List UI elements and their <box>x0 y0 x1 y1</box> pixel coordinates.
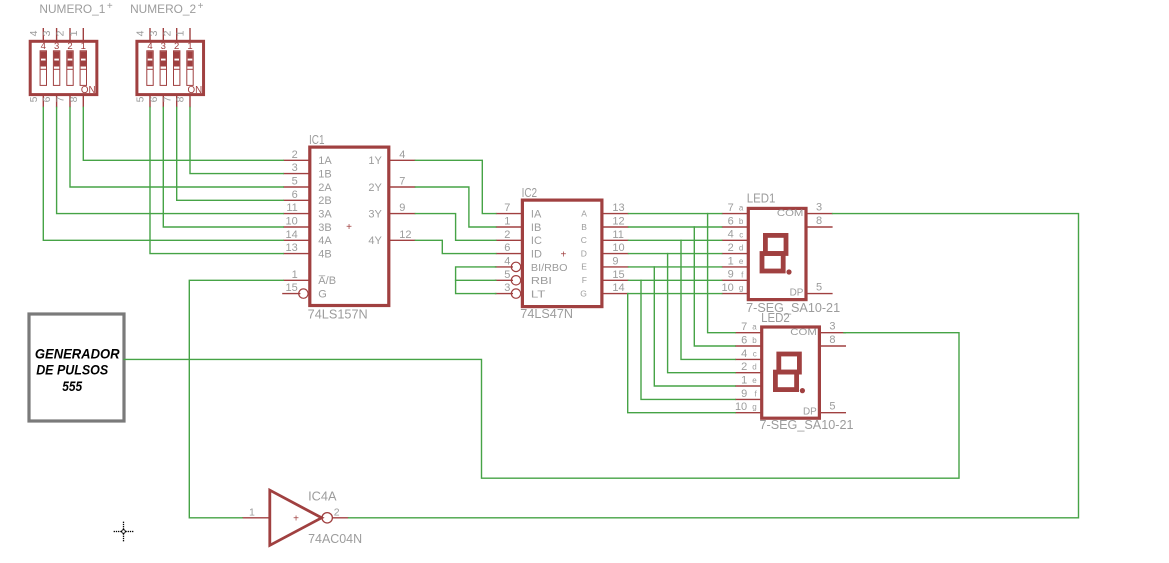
LED2 COM pin name <box>790 327 817 338</box>
svg-text:2: 2 <box>334 506 340 518</box>
LED1 pin 7 (segment a) stub <box>722 213 749 215</box>
svg-text:RBI: RBI <box>531 275 552 287</box>
svg-text:3A: 3A <box>318 209 332 221</box>
IC1 pin 3 (1B) stub <box>283 173 310 175</box>
IC1 pin name 4Y <box>368 235 382 247</box>
IC1 pin number 13 <box>286 242 298 254</box>
LED1 segment letter d <box>739 244 743 253</box>
LED1 pin number 10 <box>722 282 734 294</box>
inverter IC4A triangle <box>270 490 322 545</box>
wire IC1 4Y to IC2 ID <box>415 240 495 253</box>
IC2 pin name C <box>581 235 587 245</box>
svg-text:G: G <box>318 289 327 301</box>
NUMERO_2 pin number 5 <box>135 96 147 102</box>
LED display LED2 body <box>762 327 820 418</box>
wire tap G down to LED2 segment g <box>628 294 735 413</box>
svg-text:e: e <box>739 257 744 266</box>
wire NUMERO_1 pin8 to IC1 1A <box>83 107 283 160</box>
IC1 pin number 5 <box>292 176 298 188</box>
IC1 pin name G <box>318 289 327 301</box>
wire tap E down to LED2 segment e <box>654 267 735 386</box>
IC1 pin 15 (G) stub with inversion bubble <box>282 289 308 298</box>
wire IC2 BI/RBO-RBI-LT tie loop <box>456 267 496 294</box>
svg-text:DP: DP <box>790 287 804 298</box>
NUMERO_1 pin number 3 <box>41 30 53 36</box>
svg-text:2: 2 <box>55 30 67 36</box>
svg-text:1: 1 <box>68 30 80 36</box>
NUMERO_1 switch position digit 3 <box>54 41 59 52</box>
IC1 pin name 3B <box>318 222 331 234</box>
LED2 segment letter b <box>752 336 757 345</box>
svg-text:8: 8 <box>68 96 80 102</box>
svg-text:LED2: LED2 <box>761 311 790 325</box>
svg-text:10: 10 <box>612 242 624 254</box>
svg-text:3: 3 <box>829 321 835 333</box>
svg-text:5: 5 <box>829 401 835 413</box>
IC4A value label 74AC04N <box>308 532 362 546</box>
IC1 pin 12 (4Y) stub <box>389 239 416 241</box>
svg-text:7: 7 <box>55 96 67 102</box>
IC1 pin name 2B <box>318 195 331 207</box>
NUMERO_1 pin 6 bottom stub <box>56 95 58 108</box>
wire IC2 D to LED1 segment d <box>629 253 722 255</box>
IC1 designator label <box>309 133 325 147</box>
wire NUMERO_1 pin7 to IC1 2A <box>70 107 283 187</box>
IC2 pin 2 (IC) stub <box>496 239 523 241</box>
LED1 segment letter e <box>739 257 744 266</box>
IC1 pin number 4 <box>399 149 405 161</box>
LED2 pin 10 (segment g) stub <box>735 412 762 414</box>
svg-text:1Y: 1Y <box>368 155 382 167</box>
IC2 pin number 13 <box>612 202 624 214</box>
LED1 segment letter b <box>739 217 744 226</box>
IC1 pin 9 (3Y) stub <box>389 213 416 215</box>
NUMERO_1 pin 8 bottom stub <box>82 95 84 108</box>
svg-text:5: 5 <box>504 269 510 281</box>
svg-text:C: C <box>581 235 587 245</box>
IC2 pin 11 (C) stub <box>602 239 629 241</box>
svg-text:1: 1 <box>728 255 734 267</box>
NUMERO_1 pin number 1 <box>68 30 80 36</box>
IC2 pin 9 (E) stub <box>602 266 629 268</box>
svg-text:9: 9 <box>728 269 734 281</box>
NUMERO_2 ON label <box>188 85 203 96</box>
svg-text:10: 10 <box>722 282 734 294</box>
label NUMERO_1 <box>39 1 113 16</box>
IC1 pin 1 (A̅/B) stub <box>283 279 310 281</box>
LED2 segment letter c <box>753 349 757 358</box>
svg-text:IA: IA <box>531 209 542 221</box>
IC2 pin number 4 <box>504 256 510 268</box>
svg-text:D: D <box>581 248 587 258</box>
NUMERO_2 pin 6 bottom stub <box>162 95 164 108</box>
IC2 pin 1 (IB) stub <box>496 226 523 228</box>
NUMERO_2 pin number 3 <box>148 30 160 36</box>
svg-text:7-SEG_SA10-21: 7-SEG_SA10-21 <box>760 418 854 432</box>
svg-text:3: 3 <box>292 162 298 174</box>
LED1 pin 1 (segment e) stub <box>722 266 749 268</box>
wire tap C down to LED2 segment c <box>681 240 735 359</box>
IC2 value label 74LS47N <box>520 307 573 321</box>
svg-text:IB: IB <box>531 222 541 234</box>
IC1 pin name 4A <box>318 235 332 247</box>
IC1 pin number 7 <box>399 176 405 188</box>
IC1 pin name 2Y <box>368 182 382 194</box>
svg-text:4: 4 <box>28 30 40 36</box>
IC1 pin 5 (2A) stub <box>283 186 310 188</box>
IC1 pin number 15 <box>286 282 298 294</box>
svg-text:5: 5 <box>28 96 40 102</box>
LED2 pin number 7 <box>741 321 747 333</box>
IC2 pin 14 (G) stub <box>602 293 629 295</box>
IC1 pin number 9 <box>399 202 405 214</box>
NUMERO_1 pin number 6 <box>41 96 53 102</box>
NUMERO_2 pin 7 bottom stub <box>176 95 178 108</box>
LED2 pin 3 (COM) stub <box>819 332 846 334</box>
svg-text:4: 4 <box>399 149 405 161</box>
NUMERO_1 ON label <box>81 85 96 96</box>
svg-text:b: b <box>739 217 744 226</box>
svg-text:LT: LT <box>531 289 546 301</box>
LED1 pin 8 stub <box>806 226 833 228</box>
LED1 pin number 1 <box>728 255 734 267</box>
IC2 pin name F <box>582 275 587 285</box>
IC2 pin name A <box>581 208 587 218</box>
wire IC1 A/B select to IC4A input <box>189 280 283 518</box>
LED1 segment letter f <box>741 270 744 279</box>
svg-text:10: 10 <box>286 216 298 228</box>
IC2 pin 12 (B) stub <box>602 226 629 228</box>
IC1 pin name 1A <box>318 155 332 167</box>
LED2 pin number 8 <box>829 334 835 346</box>
IC1 pin number 6 <box>292 189 298 201</box>
LED2 pin number 6 <box>741 334 747 346</box>
NUMERO_2 slider 3 <box>160 51 166 86</box>
svg-text:b: b <box>752 336 757 345</box>
IC2 pin number 5 <box>504 269 510 281</box>
svg-text:5: 5 <box>292 176 298 188</box>
IC2 pin 10 (D) stub <box>602 253 629 255</box>
NUMERO_2 switch position digit 2 <box>174 41 179 52</box>
IC2 designator label <box>522 186 538 200</box>
LED1 segment letter g <box>739 284 743 293</box>
sheet origin crosshair marker <box>114 522 134 542</box>
DIP switch NUMERO_1 body <box>30 41 97 94</box>
svg-text:c: c <box>739 230 743 239</box>
svg-text:DP: DP <box>803 407 817 418</box>
LED1 segment letter c <box>739 230 743 239</box>
IC1 pin name A̅/B <box>318 275 336 287</box>
svg-text:8: 8 <box>816 215 822 227</box>
svg-text:4Y: 4Y <box>368 235 382 247</box>
IC1 pin number 14 <box>286 229 298 241</box>
IC2 pin number 6 <box>504 242 510 254</box>
wire IC1 3Y to IC2 IC <box>415 214 495 241</box>
NUMERO_2 pin number 1 <box>175 30 187 36</box>
NUMERO_1 pin 5 bottom stub <box>42 95 44 108</box>
svg-text:15: 15 <box>612 269 624 281</box>
IC4A plus mark <box>293 514 299 525</box>
NUMERO_1 pin number 5 <box>28 96 40 102</box>
IC1 pin 7 (2Y) stub <box>389 186 416 188</box>
IC2 pin number 14 <box>612 282 624 294</box>
NUMERO_2 slider 1 <box>187 51 193 86</box>
wire tap B down to LED2 segment b <box>694 227 735 346</box>
NUMERO_1 slider 4 <box>40 51 46 86</box>
label NUMERO_2 <box>130 1 204 16</box>
LED1 DP pin name <box>790 287 804 298</box>
IC2 pin number 11 <box>612 229 623 241</box>
svg-text:11: 11 <box>612 229 623 241</box>
wire IC2 C to LED1 segment c <box>629 239 722 241</box>
IC1 pin 11 (3A) stub <box>283 213 310 215</box>
svg-text:ON: ON <box>188 85 203 96</box>
svg-text:IC2: IC2 <box>522 186 538 200</box>
svg-text:F: F <box>582 275 587 285</box>
NUMERO_2 slider 2 <box>174 51 180 86</box>
NUMERO_1 pin number 4 <box>28 30 40 36</box>
IC1 pin name 1B <box>318 169 331 181</box>
NUMERO_2 pin number 2 <box>161 30 173 36</box>
svg-text:IC: IC <box>531 235 542 247</box>
LED1 pin 6 (segment b) stub <box>722 226 749 228</box>
svg-text:555: 555 <box>62 378 82 394</box>
LED1 value label 7-SEG_SA10-21 <box>746 301 840 315</box>
NUMERO_1 switch position digit 4 <box>41 41 46 52</box>
svg-text:7: 7 <box>399 176 405 188</box>
NUMERO_2 switch position digit 3 <box>161 41 166 52</box>
svg-text:+: + <box>560 250 566 261</box>
NUMERO_1 switch position digit 1 <box>81 41 86 52</box>
svg-text:5: 5 <box>816 281 822 293</box>
LED1 pin number 9 <box>728 269 734 281</box>
svg-text:BI/RBO: BI/RBO <box>531 262 568 274</box>
IC4A designator label <box>308 490 337 504</box>
IC2 74LS47N body <box>522 200 602 307</box>
NUMERO_1 pin number 7 <box>55 96 67 102</box>
svg-text:4: 4 <box>728 229 734 241</box>
LED2 segment letter a <box>752 323 757 332</box>
NUMERO_1 pin 7 bottom stub <box>69 95 71 108</box>
svg-text:12: 12 <box>399 229 411 241</box>
IC1 pin number 12 <box>399 229 411 241</box>
LED2 segment letter g <box>752 403 756 412</box>
IC1 pin name 3A <box>318 209 332 221</box>
wire IC2 E to LED1 segment e <box>629 266 722 268</box>
IC2 pin name D <box>581 248 587 258</box>
NUMERO_1 pin 4 top stub <box>42 28 44 41</box>
LED1 pin number 3 <box>816 201 822 213</box>
LED1 pin 9 (segment f) stub <box>722 279 749 281</box>
NUMERO_2 pin 1 top stub <box>189 28 191 41</box>
LED1 pin number 7 <box>728 202 734 214</box>
IC1 pin 13 (4B) stub <box>283 253 310 255</box>
svg-text:1: 1 <box>249 506 255 518</box>
NUMERO_2 pin 5 bottom stub <box>149 95 151 108</box>
svg-text:4: 4 <box>504 256 510 268</box>
DIP switch NUMERO_2 body <box>137 41 204 94</box>
IC1 pin number 10 <box>286 216 298 228</box>
NUMERO_2 switch position digit 4 <box>147 41 152 52</box>
svg-text:DE PULSOS: DE PULSOS <box>36 362 109 378</box>
svg-text:2: 2 <box>504 229 510 241</box>
svg-text:14: 14 <box>286 229 298 241</box>
LED2 pin 4 (segment c) stub <box>735 358 762 360</box>
wire tap D down to LED2 segment d <box>668 254 736 373</box>
IC2 pin 5 (RBI) stub with inversion bubble <box>495 276 521 285</box>
svg-text:14: 14 <box>612 282 624 294</box>
LED1 pin number 4 <box>728 229 734 241</box>
IC1 pin number 1 <box>292 269 298 281</box>
svg-text:6: 6 <box>41 96 53 102</box>
IC2 pin number 10 <box>612 242 624 254</box>
LED2 pin number 2 <box>741 361 747 373</box>
svg-text:COM: COM <box>790 327 817 338</box>
IC4A pin number 2 <box>334 506 340 518</box>
LED2 pin 1 (segment e) stub <box>735 385 762 387</box>
LED1 pin number 6 <box>728 215 734 227</box>
LED2 pin number 10 <box>735 401 747 413</box>
wire NUMERO_2 pin8 to IC1 1B <box>190 107 283 173</box>
svg-text:1B: 1B <box>318 169 331 181</box>
LED1 designator label <box>747 192 776 206</box>
LED1 seven-segment digit 8 graphic <box>762 235 792 274</box>
svg-text:A̅/B: A̅/B <box>318 275 336 287</box>
svg-text:d: d <box>739 244 743 253</box>
svg-text:3: 3 <box>816 201 822 213</box>
svg-text:LED1: LED1 <box>747 192 776 206</box>
IC1 pin 2 (1A) stub <box>283 159 310 161</box>
svg-text:6: 6 <box>741 334 747 346</box>
svg-text:G: G <box>580 288 587 298</box>
IC1 pin 4 (1Y) stub <box>389 159 416 161</box>
LED2 DP pin name <box>803 407 817 418</box>
svg-text:d: d <box>752 363 756 372</box>
LED1 pin number 5 <box>816 281 822 293</box>
svg-text:1: 1 <box>175 30 187 36</box>
svg-text:1: 1 <box>504 216 510 228</box>
svg-text:c: c <box>753 349 757 358</box>
IC1 pin 6 (2B) stub <box>283 199 310 201</box>
LED2 pin number 9 <box>741 388 747 400</box>
svg-text:2A: 2A <box>318 182 332 194</box>
wire NUMERO_1 pin5 to IC1 4A <box>43 107 283 240</box>
svg-text:IC4A: IC4A <box>308 490 337 504</box>
IC1 pin 10 (3B) stub <box>283 226 310 228</box>
LED1 pin 3 (COM) stub <box>806 213 833 215</box>
svg-text:74AC04N: 74AC04N <box>308 532 362 546</box>
IC4A pin number 1 <box>249 506 255 518</box>
IC1 pin name 1Y <box>368 155 382 167</box>
LED2 value label 7-SEG_SA10-21 <box>760 418 854 432</box>
wire NUMERO_2 pin7 to IC1 2B <box>177 107 284 200</box>
svg-text:8: 8 <box>175 96 187 102</box>
NUMERO_2 pin 3 top stub <box>162 28 164 41</box>
NUMERO_2 pin number 4 <box>135 30 147 36</box>
wire tap A down to LED2 segment a <box>708 214 736 333</box>
svg-text:3: 3 <box>148 30 160 36</box>
LED1 pin 10 (segment g) stub <box>722 293 749 295</box>
IC1 pin 14 (4A) stub <box>283 239 310 241</box>
svg-text:74LS157N: 74LS157N <box>308 308 368 322</box>
svg-text:6: 6 <box>292 189 298 201</box>
svg-text:8: 8 <box>829 334 835 346</box>
IC2 pin number 3 <box>504 282 510 294</box>
svg-text:4: 4 <box>741 348 747 360</box>
svg-text:ID: ID <box>531 249 542 261</box>
svg-text:2: 2 <box>728 242 734 254</box>
IC2 pin name G <box>580 288 587 298</box>
svg-text:NUMERO_1: NUMERO_1 <box>39 4 105 16</box>
LED2 segment letter e <box>752 376 757 385</box>
IC2 pin name B <box>581 222 587 232</box>
NUMERO_2 switch position digit 1 <box>187 41 192 52</box>
IC2 pin name IB <box>531 222 541 234</box>
IC1 pin number 11 <box>286 202 297 214</box>
svg-text:+: + <box>346 222 352 233</box>
wire IC2 B to LED1 segment b <box>629 226 722 228</box>
wire IC1 2Y to IC2 IB <box>415 187 495 227</box>
LED2 seven-segment digit 8 graphic <box>775 354 805 393</box>
svg-text:9: 9 <box>399 202 405 214</box>
IC2 pin number 7 <box>504 202 510 214</box>
IC2 pin 13 (A) stub <box>602 213 629 215</box>
svg-text:g: g <box>752 403 756 412</box>
IC2 pin name BI/RBO <box>531 262 568 274</box>
IC1 value label 74LS157N <box>308 308 368 322</box>
LED1 segment letter a <box>739 204 744 213</box>
svg-text:13: 13 <box>612 202 624 214</box>
IC2 pin name RBI <box>531 275 552 287</box>
svg-text:2: 2 <box>292 149 298 161</box>
svg-text:+: + <box>293 514 299 525</box>
svg-text:74LS47N: 74LS47N <box>520 307 573 321</box>
wire generator 555 output to LED2 COM <box>124 333 959 479</box>
IC4A pin 1 stub <box>242 517 270 519</box>
svg-text:15: 15 <box>286 282 298 294</box>
svg-text:g: g <box>739 284 743 293</box>
svg-text:4: 4 <box>135 30 147 36</box>
wire IC4A output to LED1 COM <box>349 214 1079 518</box>
IC1 pin name 3Y <box>368 209 382 221</box>
IC1 pin number 3 <box>292 162 298 174</box>
NUMERO_2 pin number 7 <box>161 96 173 102</box>
svg-text:a: a <box>752 323 757 332</box>
svg-text:2Y: 2Y <box>368 182 382 194</box>
svg-text:1: 1 <box>292 269 298 281</box>
NUMERO_1 pin 3 top stub <box>56 28 58 41</box>
svg-text:7: 7 <box>741 321 747 333</box>
IC2 pin name E <box>581 262 587 272</box>
wire IC2 F to LED1 segment f <box>629 279 722 281</box>
LED2 pin number 3 <box>829 321 835 333</box>
svg-text:E: E <box>581 262 587 272</box>
LED2 designator label <box>761 311 790 325</box>
wire NUMERO_2 pin5 to IC1 4B <box>150 107 283 253</box>
svg-text:5: 5 <box>135 96 147 102</box>
IC2 pin name IA <box>531 209 542 221</box>
LED2 pin 9 (segment f) stub <box>735 398 762 400</box>
LED2 pin number 1 <box>741 374 747 386</box>
IC2 pin 7 (IA) stub <box>496 213 523 215</box>
svg-text:6: 6 <box>728 215 734 227</box>
svg-text:7: 7 <box>728 202 734 214</box>
LED2 pin 2 (segment d) stub <box>735 372 762 374</box>
svg-text:e: e <box>752 376 757 385</box>
NUMERO_1 pin number 8 <box>68 96 80 102</box>
svg-text:a: a <box>739 204 744 213</box>
svg-text:3B: 3B <box>318 222 331 234</box>
